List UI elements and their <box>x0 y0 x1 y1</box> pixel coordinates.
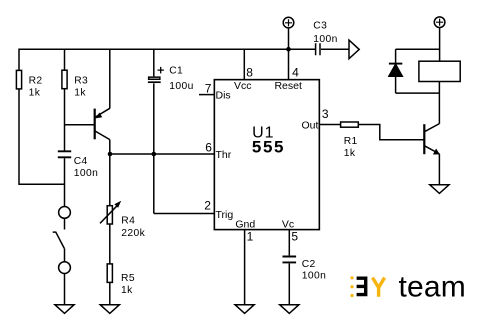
svg-text:Gnd: Gnd <box>235 218 255 230</box>
svg-text:1k: 1k <box>74 88 86 99</box>
svg-text:1k: 1k <box>344 148 356 159</box>
svg-text:R4: R4 <box>121 216 135 227</box>
svg-text:100n: 100n <box>74 168 99 179</box>
svg-text:Out: Out <box>301 120 318 132</box>
svg-text:Vc: Vc <box>282 218 294 230</box>
svg-text:220k: 220k <box>121 228 145 239</box>
svg-text:C1: C1 <box>169 66 183 77</box>
svg-text:1k: 1k <box>121 285 133 296</box>
svg-text:Vcc: Vcc <box>234 80 252 92</box>
svg-text:4: 4 <box>292 65 299 79</box>
svg-text:555: 555 <box>252 138 285 157</box>
svg-text:3: 3 <box>322 107 329 121</box>
svg-text:R2: R2 <box>29 75 43 86</box>
svg-text:Thr: Thr <box>216 149 232 161</box>
svg-text:8: 8 <box>246 65 253 79</box>
svg-text:R5: R5 <box>121 273 135 284</box>
svg-text:C4: C4 <box>74 156 88 167</box>
svg-text:team: team <box>399 271 467 304</box>
svg-text:Reset: Reset <box>274 80 302 92</box>
svg-text:1k: 1k <box>29 88 41 99</box>
svg-text:100n: 100n <box>313 34 338 45</box>
svg-text:6: 6 <box>205 141 212 155</box>
svg-text:C3: C3 <box>313 20 327 31</box>
svg-text:100n: 100n <box>302 271 327 282</box>
svg-text:5: 5 <box>291 229 298 243</box>
svg-text:2: 2 <box>204 199 211 213</box>
svg-text:R3: R3 <box>74 75 88 86</box>
svg-text:7: 7 <box>205 82 212 96</box>
svg-text:1: 1 <box>247 229 254 243</box>
svg-text:R1: R1 <box>344 136 358 147</box>
svg-text:100u: 100u <box>169 81 194 92</box>
svg-text:Trig: Trig <box>216 209 234 221</box>
svg-text:Dis: Dis <box>216 89 231 101</box>
svg-text:C2: C2 <box>302 259 316 270</box>
